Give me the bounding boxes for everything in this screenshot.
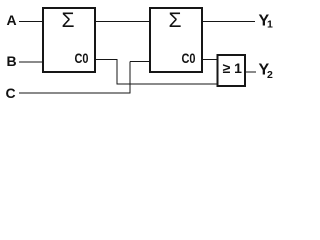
wire CO1 riser [116,60,118,85]
OR gate U3 [218,55,246,86]
wire CO1 bottom run to OR [117,83,218,85]
svg-text:C0: C0 [182,51,196,66]
svg-text:≥1: ≥1 [223,60,246,76]
svg-text:Σ: Σ [62,9,75,32]
svg-text:1: 1 [267,19,273,31]
wire B input [19,61,43,63]
wire C riser [129,62,131,94]
wire C to U2 [130,61,150,63]
svg-text:B: B [7,53,17,69]
wire sum1 U1 to U2 [95,21,150,23]
svg-text:A: A [7,12,17,28]
half adder U2 [150,8,202,72]
wire C input [19,92,131,94]
svg-text:C: C [6,85,16,101]
wire A input [19,21,43,23]
wire CO2 to OR [202,59,218,61]
wire CO1 horizontal [95,59,118,61]
svg-text:Σ: Σ [169,9,182,32]
half adder U1 [43,8,95,72]
wire Y1 output [202,21,255,23]
svg-text:C0: C0 [75,51,89,66]
svg-text:2: 2 [267,69,273,81]
wire Y2 output [245,71,256,73]
